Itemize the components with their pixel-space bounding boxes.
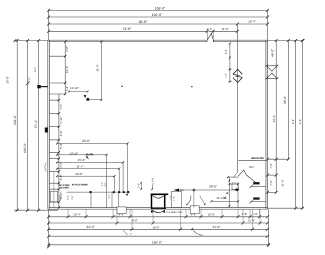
svg-text:MECH RM: MECH RM [251, 157, 263, 160]
svg-text:5'-8": 5'-8" [59, 175, 63, 181]
svg-text:1'-6": 1'-6" [169, 195, 172, 200]
interior dimension 15'-2 [56, 158, 124, 163]
svg-text:15'-2": 15'-2" [78, 158, 86, 162]
svg-text:11'-10": 11'-10" [216, 196, 225, 200]
vertical x194 to wall [193, 191, 195, 208]
svg-text:5'-4": 5'-4" [59, 143, 63, 149]
leader note 4D PR [85, 153, 93, 159]
svg-text:10'-0": 10'-0" [208, 213, 215, 217]
bottom right extension line with arrow [267, 209, 270, 247]
svg-text:3'-2": 3'-2" [225, 49, 228, 54]
door hinge mark upper left wall [34, 67, 48, 88]
svg-text:OFC: OFC [249, 166, 254, 169]
rotated labels with leader mid [137, 177, 154, 190]
svg-text:3'-4": 3'-4" [292, 119, 295, 124]
right dimension vertical 3 [292, 39, 297, 210]
open door glyph [238, 170, 257, 184]
shaft insulation curve top [153, 196, 164, 199]
right mini dimension y159 [266, 158, 290, 161]
svg-text:4D PR: 4D PR [85, 153, 93, 156]
interior corridor line y192 [67, 191, 129, 193]
svg-text:4x4: 4x4 [179, 189, 184, 192]
cluster vertical x119.2 [118, 169, 120, 192]
bottom wall dark segment [151, 207, 166, 209]
dimension line 74'-8 (top row 4) [47, 27, 239, 33]
curved leader on bottom rows [191, 228, 202, 235]
svg-text:5'-10": 5'-10" [59, 117, 63, 124]
shaft box black frame [151, 194, 168, 209]
bottom dimension row 3 (34'-0 / 21'-8) [47, 225, 269, 231]
svg-text:5'-6": 5'-6" [152, 177, 155, 182]
svg-text:40 PCS WRAP: 40 PCS WRAP [72, 184, 89, 187]
svg-text:3'-8": 3'-8" [66, 86, 69, 91]
interior dimension 11'-7 [56, 165, 120, 170]
small interior box right of shaft [171, 191, 181, 207]
svg-text:102'-0": 102'-0" [152, 13, 163, 17]
svg-text:5'-4": 5'-4" [28, 77, 31, 82]
bracket horizontal y184 [229, 183, 239, 185]
bottom dimension row 5 (160'-0 overall) [47, 241, 270, 247]
room divider y186 [250, 185, 266, 187]
door leaf bar B [249, 197, 259, 203]
cluster vertical x123.1 [122, 162, 124, 192]
tiny rotated labels near corridor [67, 182, 111, 200]
right wall break symbol (hourglass) [266, 65, 279, 80]
svg-text:16'-4": 16'-4" [73, 213, 81, 217]
svg-text:11'-8": 11'-8" [222, 27, 229, 31]
left dimension line 104'-0 (vertical) [13, 39, 19, 212]
svg-text:5'-4": 5'-4" [67, 195, 70, 200]
svg-text:16'-4": 16'-4" [248, 20, 256, 24]
left dimension line 100'-0 (vertical) [23, 39, 31, 212]
bottom extension stubs row3 [132, 210, 253, 230]
stair strip inner vertical [53, 172, 55, 208]
bottom-left closet box [50, 191, 62, 202]
bottom dimension row 2 [47, 218, 269, 224]
left wall extension line above and below [47, 9, 50, 248]
svg-text:36'-8": 36'-8" [6, 76, 10, 84]
sub dimension 3'-2 below top wall [207, 30, 213, 42]
svg-text:2'-8": 2'-8" [299, 119, 302, 124]
pipe break symbol on x237 [233, 69, 242, 82]
door jamb box [232, 183, 238, 191]
bottom wall (double line) [49, 208, 268, 210]
right dimension line 46'-0 (vertical, near wall) [271, 39, 278, 193]
dimension line 96'-8 (top row 3) [47, 20, 269, 26]
dimension line 102'-0 (top row 2) [47, 13, 269, 19]
svg-text:31'-4": 31'-4" [96, 64, 100, 71]
svg-text:7'-4": 7'-4" [270, 163, 273, 168]
svg-text:10'-8": 10'-8" [75, 172, 83, 176]
left wall outside arc [45, 163, 47, 172]
interior dimension 20'-6 [174, 185, 239, 192]
cluster vertical x127.5 [127, 144, 129, 193]
interior dimension 10'-4 [56, 154, 108, 156]
svg-text:6'-8": 6'-8" [59, 195, 62, 200]
bottom extension stubs row2 [117, 210, 260, 223]
right dimension line 96'-0 (vertical) [283, 39, 290, 159]
right mini dimension y175 [266, 163, 278, 176]
svg-text:6'-8": 6'-8" [59, 131, 63, 137]
vertical extension x238 [237, 183, 239, 207]
stray dot A [121, 86, 122, 87]
cluster dots on corridor line [89, 191, 129, 193]
text high tile note [166, 211, 183, 214]
svg-text:96'-8": 96'-8" [139, 20, 148, 24]
svg-text:4'-6": 4'-6" [207, 27, 213, 31]
svg-text:7'-6": 7'-6" [59, 162, 63, 168]
svg-text:2'-0": 2'-0" [137, 183, 140, 188]
right mini dimension y192 [266, 180, 285, 194]
dimension line 106'-0 (top row 1) [47, 6, 269, 12]
svg-text:5'-0": 5'-0" [101, 182, 104, 187]
right wall (double line) [266, 40, 268, 209]
svg-text:5'-4": 5'-4" [34, 67, 37, 72]
svg-text:12'-4": 12'-4" [272, 115, 276, 123]
footing box B below wall [190, 206, 199, 214]
bottom extension line right stub [268, 207, 304, 209]
svg-text:2'-8": 2'-8" [71, 195, 74, 200]
corridor verticals to bottom wall [91, 192, 119, 207]
svg-text:3'-6": 3'-6" [104, 182, 107, 187]
svg-text:3'-0": 3'-0" [108, 194, 111, 199]
top wall left segment (double line) [49, 40, 206, 42]
mech room wall y160 [238, 157, 266, 160]
svg-text:12'-4": 12'-4" [65, 66, 69, 73]
interior dimension 24'-6 [56, 139, 129, 145]
cluster vertical x106.6 [106, 155, 108, 192]
left wall (double line) [48, 40, 50, 209]
svg-text:1'-4": 1'-4" [224, 73, 227, 78]
stair strip dimension chain lower [58, 94, 63, 209]
door leaf bar A [249, 182, 259, 188]
svg-text:100'-0": 100'-0" [23, 143, 27, 153]
svg-text:160'-0": 160'-0" [152, 241, 163, 245]
left dimension line 57'-4 (vertical) [34, 39, 40, 212]
office text [249, 166, 254, 169]
svg-text:12'-4": 12'-4" [248, 218, 255, 222]
svg-text:96'-0": 96'-0" [283, 96, 287, 104]
svg-text:74'-8": 74'-8" [123, 27, 132, 31]
svg-text:104'-0": 104'-0" [13, 115, 17, 125]
right dimension vertical 4 [299, 39, 304, 210]
svg-text:34'-0": 34'-0" [86, 225, 95, 229]
dark corner mark [126, 194, 128, 196]
office wall y177 [227, 176, 238, 178]
text 12'-10 beside left wall [68, 86, 88, 93]
interior dimension 31'-4 with leader square [84, 41, 103, 101]
shaft insulation below wall [152, 210, 164, 213]
svg-text:31'-0": 31'-0" [282, 180, 285, 187]
svg-text:20'-6": 20'-6" [209, 185, 217, 189]
svg-text:46'-0": 46'-0" [271, 49, 275, 57]
svg-text:57'-4": 57'-4" [34, 120, 38, 128]
bottom extension line left stub [14, 209, 58, 211]
interior stair strip rungs (left wall) [49, 56, 65, 202]
door hinge mark mid left wall [45, 128, 48, 133]
door swing arrow marks [224, 192, 228, 199]
vertical dimension 3'-2 at x230 [224, 43, 231, 83]
svg-text:7'-6": 7'-6" [59, 104, 63, 110]
interior extension line x237 [236, 24, 238, 173]
text 13'-10 beside left wall lower [70, 152, 79, 156]
svg-text:7'-4": 7'-4" [270, 180, 273, 185]
svg-text:6'-8": 6'-8" [65, 46, 69, 52]
leader 1'-6 curved [169, 195, 191, 205]
svg-text:11'-7": 11'-7" [76, 165, 83, 169]
note text at stair [59, 184, 88, 190]
svg-text:4'-0 HIGH TILE: 4'-0 HIGH TILE [166, 211, 183, 214]
wall break symbol (Z-jog) [206, 33, 214, 42]
bottom dimension row 1 (16'-4 / 4'-6 ...) [47, 212, 269, 218]
svg-text:1'-6": 1'-6" [172, 196, 175, 201]
cluster vertical x114.3 [113, 176, 115, 192]
leader at bottom of x237 [233, 173, 237, 178]
svg-text:106'-0": 106'-0" [155, 6, 166, 10]
vertical extension x229.4 [229, 178, 231, 208]
rotated label 36'-8 far left [6, 76, 10, 84]
interior dimension 11'-10 [200, 196, 238, 206]
top extension line right stub with arrow [268, 39, 305, 42]
svg-text:21'-8": 21'-8" [213, 225, 221, 229]
svg-text:10'-6": 10'-6" [152, 225, 159, 229]
svg-text:4'-8": 4'-8" [242, 212, 248, 216]
top wall right segment (double line) [213, 40, 267, 42]
top extension line left stub [14, 39, 49, 42]
svg-text:W/ DWR: W/ DWR [60, 187, 69, 190]
interior dimension 10'-8 [56, 172, 115, 177]
svg-text:8'-0": 8'-0" [132, 219, 138, 223]
stray dot B [191, 86, 192, 87]
bottom extension stubs row1 [68, 210, 260, 217]
bottom dimension row 4 [47, 235, 269, 238]
leader 7' on bottom rows [123, 230, 133, 236]
svg-text:12'-10": 12'-10" [70, 86, 79, 90]
svg-text:7'-8": 7'-8" [252, 212, 258, 216]
footing box A below wall [117, 207, 126, 214]
stair strip dimension chain upper [64, 41, 69, 96]
right wall extension line above [267, 9, 269, 40]
room divider y201 [250, 200, 266, 202]
svg-text:24'-6": 24'-6" [82, 139, 90, 143]
